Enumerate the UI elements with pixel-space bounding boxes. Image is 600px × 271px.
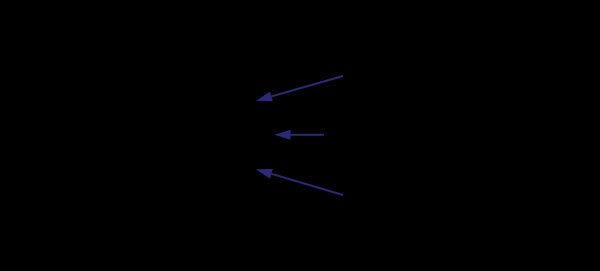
- arrow 3 (bottom callout arrow, points upper-left): [256, 169, 343, 195]
- wire: [271, 174, 343, 195]
- wire: [291, 134, 325, 136]
- arrow 1 (top callout arrow, points lower-left): [256, 76, 343, 101]
- arrow 2 (middle callout arrow, points left): [275, 130, 325, 140]
- wire: [271, 76, 343, 96]
